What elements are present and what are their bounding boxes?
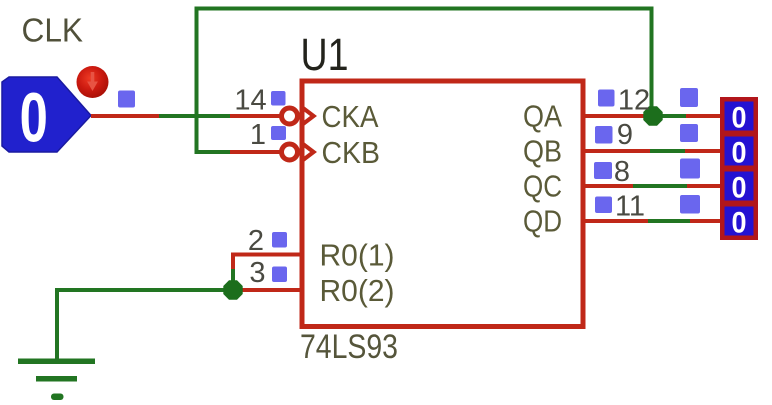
svg-text:U1: U1 xyxy=(301,29,349,80)
wire R0(1) jog vertical upper (red) xyxy=(231,253,235,272)
pin R0(1) stub (red) xyxy=(231,253,302,257)
pin marker square (QA right) xyxy=(680,88,698,107)
junction dot R0 node xyxy=(223,280,242,299)
svg-text:3: 3 xyxy=(249,257,265,289)
svg-text:2: 2 xyxy=(248,225,264,257)
pin marker square (pin 12 left) xyxy=(598,90,615,107)
svg-text:0: 0 xyxy=(731,171,746,205)
pin QC stub (red) xyxy=(581,184,635,188)
pin QD stub (red) xyxy=(581,219,650,223)
logic state pentagon CLK xyxy=(2,77,91,156)
wire CLK to CKA (green) xyxy=(159,114,232,118)
logic probe QC cell xyxy=(725,171,754,205)
svg-text:CKB: CKB xyxy=(322,135,381,170)
svg-text:0: 0 xyxy=(731,101,746,135)
wire QB (green) xyxy=(650,149,686,153)
pin QA stub (red) xyxy=(581,114,647,118)
pin QC probe stub (red) xyxy=(687,184,722,188)
pin CKA stub (red) xyxy=(230,114,281,118)
svg-text:QB: QB xyxy=(523,134,562,169)
pin marker square (pin 11 left) xyxy=(595,197,612,214)
logic probe QD cell xyxy=(725,206,754,240)
wire QA feedback: top horizontal (green) xyxy=(195,7,654,11)
pin QD probe stub (red) xyxy=(690,219,722,223)
pin marker square (QD right) xyxy=(680,195,700,214)
pin marker square (pin 1) xyxy=(271,126,286,140)
pin marker square (QC right) xyxy=(680,159,700,179)
pin marker square (QB right) xyxy=(680,124,698,142)
logic probe QA cell xyxy=(725,101,754,135)
wire feedback left vertical (green) xyxy=(195,7,199,155)
clock chevron CKB xyxy=(303,144,314,160)
svg-text:0: 0 xyxy=(731,206,746,240)
svg-text:1: 1 xyxy=(250,119,266,151)
pin marker square (pin 14) xyxy=(271,91,286,106)
svg-text:0: 0 xyxy=(731,136,746,170)
ground symbol xyxy=(18,359,95,401)
svg-text:8: 8 xyxy=(614,156,630,188)
svg-text:QD: QD xyxy=(523,204,562,239)
svg-text:0: 0 xyxy=(20,79,48,157)
svg-text:9: 9 xyxy=(617,119,633,151)
svg-text:12: 12 xyxy=(618,85,650,117)
wire R0(1) jog vertical lower (green) xyxy=(231,269,235,292)
svg-text:CKA: CKA xyxy=(322,99,379,134)
logic probe block xyxy=(720,97,758,240)
pin marker square (pin 2) xyxy=(272,232,287,248)
chip U1 body outline xyxy=(302,81,583,327)
wire QD (green) xyxy=(648,219,691,223)
wire ground vertical (green) xyxy=(55,288,59,361)
wire QA (green) xyxy=(645,114,687,118)
pin QB probe stub (red) xyxy=(685,149,722,153)
wire QC (green) xyxy=(633,184,688,188)
pin bubble CKB xyxy=(282,144,298,160)
pin R0(2) stub (red) xyxy=(233,288,302,292)
pin marker square (pin 8 left) xyxy=(594,162,612,179)
clock chevron CKA xyxy=(303,108,314,124)
pin marker square (pin 9 left) xyxy=(595,126,613,144)
svg-text:QC: QC xyxy=(523,169,562,204)
junction dot QA node xyxy=(643,106,662,125)
svg-text:QA: QA xyxy=(523,99,562,134)
wire ground horizontal (green) xyxy=(55,288,233,292)
logic probe QB cell xyxy=(725,136,754,170)
svg-text:74LS93: 74LS93 xyxy=(300,328,398,366)
pin QA probe stub (red) xyxy=(686,114,722,118)
svg-text:R0(2): R0(2) xyxy=(320,273,395,308)
pin QB stub (red) xyxy=(581,149,652,153)
wire CLK pin (red) xyxy=(91,114,161,118)
svg-text:R0(1): R0(1) xyxy=(320,238,395,273)
svg-text:CLK: CLK xyxy=(22,12,84,49)
svg-text:14: 14 xyxy=(234,85,266,117)
toggle button of CLK xyxy=(77,66,109,98)
wire feedback right vertical (green) xyxy=(650,7,654,117)
pin marker square (CLK net) xyxy=(118,91,135,108)
pin bubble CKA xyxy=(282,108,298,124)
svg-text:11: 11 xyxy=(615,191,645,223)
pin marker square (pin 3) xyxy=(272,267,287,283)
pin CKB stub (red) xyxy=(230,150,281,154)
wire to CKB (green) xyxy=(195,150,233,154)
